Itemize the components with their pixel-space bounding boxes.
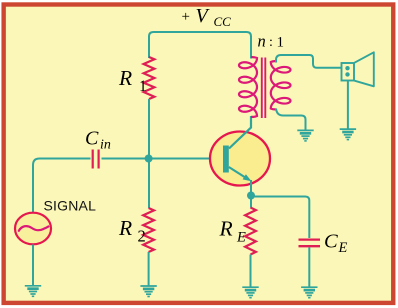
ground under RE: [242, 287, 258, 298]
speaker horn: [355, 52, 374, 86]
capacitor CE: [299, 240, 321, 247]
svg-text:R: R: [118, 216, 132, 240]
wire R2 to ground: [148, 252, 150, 286]
svg-text:1: 1: [277, 35, 285, 51]
signal source circle: [15, 213, 51, 245]
resistor R1: [144, 57, 155, 99]
wire R1 to base node to R2: [148, 99, 150, 208]
svg-text:in: in: [100, 138, 111, 153]
wire signal to Cin: [33, 159, 91, 214]
svg-text::: :: [269, 35, 273, 50]
transistor Q1 circle: [210, 132, 270, 186]
node emitter junction: [247, 192, 255, 200]
svg-text:E: E: [236, 230, 246, 246]
signal sine wave: [19, 226, 49, 231]
wire signal to ground: [32, 245, 34, 287]
svg-text:E: E: [338, 240, 348, 256]
svg-text:1: 1: [139, 78, 147, 95]
ground under R2: [140, 286, 156, 297]
wire speaker to ground: [347, 81, 349, 130]
svg-text:C: C: [85, 128, 99, 150]
ground under speaker: [340, 129, 356, 140]
wire Vcc top rail: [149, 32, 251, 59]
wire CE to ground: [308, 248, 310, 288]
label +Vcc: [182, 5, 232, 29]
svg-text:SIGNAL: SIGNAL: [44, 198, 97, 214]
wire emitter with arrow: [229, 167, 249, 180]
transformer core: [262, 58, 266, 119]
wire node to CE: [251, 197, 309, 239]
wire emitter to node: [250, 180, 252, 208]
wire collector: [229, 116, 251, 149]
wire secondary top to speaker: [276, 55, 341, 68]
transformer secondary coil: [271, 61, 291, 109]
svg-text:C: C: [324, 231, 338, 253]
label Cin: [85, 128, 111, 153]
label R1: [118, 66, 147, 95]
svg-text:R: R: [219, 217, 233, 241]
wire secondary bottom to ground: [276, 109, 306, 131]
ground under signal: [25, 286, 41, 297]
wire Cin to base: [102, 158, 224, 160]
resistor R2: [143, 208, 154, 252]
label n:1: [258, 32, 285, 51]
node base junction: [145, 155, 153, 163]
transistor base bar: [223, 146, 229, 173]
svg-text:CC: CC: [214, 14, 232, 29]
ground under CE: [301, 287, 317, 298]
capacitor Cin: [93, 150, 99, 169]
transformer primary coil: [239, 57, 257, 117]
label RE: [219, 217, 247, 246]
svg-text:2: 2: [138, 227, 146, 246]
svg-text:+: +: [182, 9, 190, 25]
speaker terminal dots: [345, 66, 349, 70]
svg-text:n: n: [258, 32, 266, 51]
ground under secondary: [297, 130, 313, 141]
speaker box: [342, 63, 355, 81]
wire RE to ground: [250, 255, 252, 288]
label R2: [118, 216, 146, 246]
resistor RE: [245, 208, 256, 255]
label CE: [324, 231, 348, 257]
svg-text:R: R: [118, 66, 132, 90]
